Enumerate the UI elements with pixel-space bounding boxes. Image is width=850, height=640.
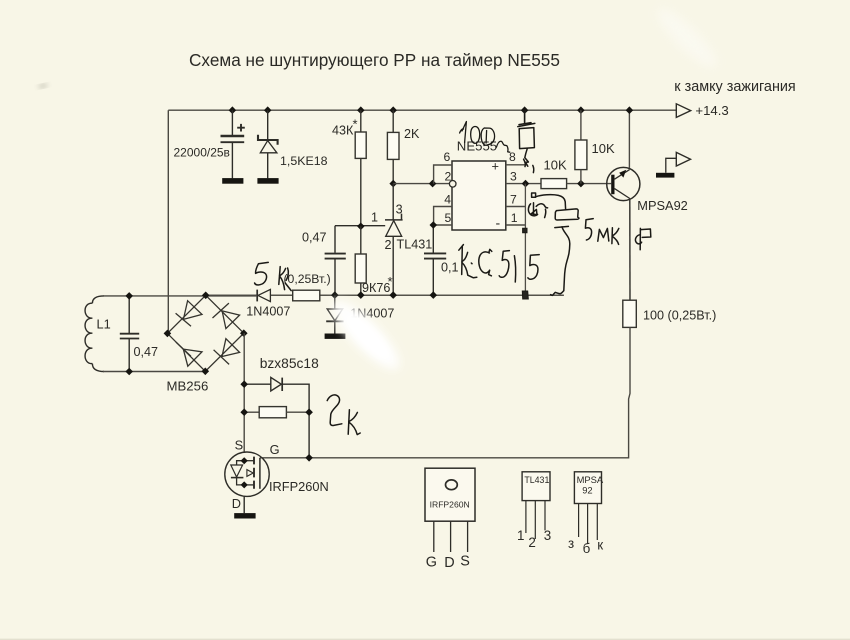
node bridge bottom bbox=[202, 368, 210, 376]
wire 10K to base bbox=[567, 183, 612, 185]
pin 8 stub bbox=[506, 164, 527, 166]
hand symbol right of collector bbox=[639, 228, 641, 249]
resistor 100 (0,25Вт.) bbox=[623, 300, 637, 327]
node resistor left bbox=[240, 408, 248, 416]
svg-text:22000/25в: 22000/25в bbox=[174, 146, 230, 160]
svg-text:9К76: 9К76 bbox=[362, 281, 390, 295]
svg-text:L1: L1 bbox=[97, 317, 111, 332]
pin 4 stub bbox=[434, 207, 452, 226]
node bridge left bbox=[164, 330, 172, 338]
diode bridge top-left bbox=[183, 301, 202, 320]
diode bridge bottom-left bbox=[183, 349, 202, 366]
node top rail at 2K bbox=[389, 106, 397, 114]
svg-text:б: б bbox=[583, 541, 591, 556]
svg-text:+14.3: +14.3 bbox=[695, 103, 728, 118]
svg-text:S: S bbox=[235, 438, 244, 453]
node top rail at pin8 branch bbox=[521, 106, 529, 114]
svg-text:1,5KE18: 1,5KE18 bbox=[280, 154, 328, 168]
ground of zener bbox=[257, 178, 278, 184]
zener bzx85c18 bbox=[244, 377, 309, 457]
ground bar (terminal) bbox=[656, 173, 674, 178]
svg-text:D: D bbox=[232, 496, 241, 511]
zener 1,5KE18 bbox=[258, 110, 278, 178]
wire 2K to pin 2 bbox=[393, 183, 449, 185]
node top rail at 43K bbox=[357, 106, 365, 114]
wire emitter rail drop bbox=[628, 110, 630, 168]
svg-text:0,47: 0,47 bbox=[134, 345, 159, 359]
node bridge right bbox=[240, 329, 248, 337]
hand loop wire bbox=[555, 226, 569, 227]
resistor 2K bbox=[387, 110, 399, 183]
svg-text:2: 2 bbox=[385, 238, 392, 252]
svg-text:к: к bbox=[597, 537, 603, 552]
node rail at 0,47 bbox=[331, 291, 339, 299]
diode bridge top-right bbox=[222, 311, 240, 329]
resistor 9К76 bbox=[355, 226, 366, 295]
svg-text:TL431: TL431 bbox=[524, 475, 549, 485]
hand wire pin7 area to 5mk cap bbox=[535, 195, 565, 209]
resistor (gate loop) bbox=[244, 407, 309, 418]
pin 3 wire to 10K bbox=[506, 183, 541, 185]
node base/10K vertical bbox=[577, 180, 585, 188]
svg-text:92: 92 bbox=[582, 485, 592, 496]
svg-text:4: 4 bbox=[444, 193, 451, 207]
svg-text:3: 3 bbox=[396, 203, 403, 217]
handwritten 10n above NE555 bbox=[462, 122, 466, 143]
svg-text:10K: 10K bbox=[544, 158, 567, 173]
node mosfet S bbox=[241, 457, 248, 464]
wire pin3 column down to ground rail bbox=[524, 184, 526, 295]
terminal arrow with ground bbox=[666, 158, 677, 173]
svg-text:NE555: NE555 bbox=[457, 139, 497, 154]
svg-text:*: * bbox=[353, 117, 358, 132]
wire pin8 riser stub bbox=[524, 110, 526, 122]
node pin 5 bbox=[430, 221, 438, 229]
pin 1 stub bbox=[506, 224, 526, 226]
glare streak (scan) bbox=[324, 2, 723, 378]
handwritten 5к near D1 bbox=[255, 262, 269, 285]
diode D2 1N4007 vertical bbox=[326, 295, 343, 333]
svg-text:2: 2 bbox=[445, 170, 452, 184]
resistor 10K vertical bbox=[575, 110, 587, 183]
svg-text:10K: 10K bbox=[592, 141, 615, 156]
svg-text:к замку зажигания: к замку зажигания bbox=[674, 79, 795, 95]
ground of mosfet drain bbox=[234, 513, 255, 518]
svg-text:з: з bbox=[568, 536, 574, 551]
package drawing MPSA92 bbox=[574, 472, 601, 544]
node top rail at emitter bbox=[626, 106, 634, 114]
node pin2 bracket bbox=[429, 180, 437, 188]
svg-text:5: 5 bbox=[445, 211, 452, 225]
svg-text:7: 7 bbox=[510, 193, 517, 207]
node rail at 0,1 bbox=[430, 291, 438, 299]
hand square at pin 7 bbox=[532, 193, 536, 197]
diode bridge bottom-right bbox=[222, 339, 240, 357]
svg-text:(0,25Вт.): (0,25Вт.) bbox=[284, 272, 331, 286]
capacitor 0,47 (L1) bbox=[120, 296, 139, 372]
wire ground rail bbox=[206, 294, 564, 296]
capacitor 0,47 (at TL431) bbox=[325, 226, 346, 295]
svg-text:-: - bbox=[496, 215, 501, 231]
svg-text:G: G bbox=[270, 442, 280, 457]
svg-text:IRFP260N: IRFP260N bbox=[269, 479, 329, 494]
resistor 0,25Вт bbox=[293, 290, 320, 301]
handwritten 5МК bbox=[585, 219, 593, 240]
node L1 cap bottom bbox=[125, 368, 133, 376]
node rail at TL431 bbox=[389, 291, 397, 299]
svg-text:2: 2 bbox=[528, 535, 535, 550]
scan speck left edge bbox=[39, 84, 47, 88]
svg-text:100 (0,25Вт.): 100 (0,25Вт.) bbox=[643, 308, 716, 322]
node bzx left bbox=[240, 380, 248, 388]
transistor Q2 IRFP260N (mosfet) bbox=[225, 452, 269, 513]
node gate line bbox=[305, 454, 313, 462]
svg-text:MPSA: MPSA bbox=[577, 474, 604, 485]
package drawing IRFP260N bbox=[425, 468, 475, 552]
pin 5 stub bbox=[433, 224, 452, 226]
pin 6 stub bbox=[434, 165, 452, 184]
node L1 cap top bbox=[125, 292, 133, 300]
node mosfet D bbox=[241, 481, 248, 488]
node bridge top bbox=[202, 292, 210, 300]
pin 2 circle bbox=[449, 181, 456, 188]
svg-text:3: 3 bbox=[544, 528, 551, 543]
svg-text:MB256: MB256 bbox=[167, 379, 209, 394]
svg-text:D: D bbox=[444, 555, 454, 571]
svg-text:1: 1 bbox=[511, 211, 518, 225]
node square ground rail (pen) bbox=[522, 291, 528, 299]
svg-text:1: 1 bbox=[371, 211, 378, 225]
TL431 U2 bbox=[335, 184, 403, 296]
resistor 43K bbox=[355, 110, 366, 226]
wire top supply rail bbox=[168, 109, 676, 111]
svg-text:1N4007: 1N4007 bbox=[246, 304, 290, 318]
transistor Q1 MPSA92 bbox=[607, 167, 640, 300]
svg-text:MPSA92: MPSA92 bbox=[637, 198, 688, 213]
node ref wire / 43K bbox=[357, 223, 365, 231]
terminal arrow +14.3 bbox=[676, 104, 690, 118]
hand transistor at pin 7 bbox=[533, 203, 535, 215]
svg-text:TL431: TL431 bbox=[397, 237, 433, 251]
svg-text:IRFP260N: IRFP260N bbox=[430, 499, 470, 509]
handwritten 2К near gate resistor bbox=[327, 395, 342, 426]
node top rail at 10K bbox=[577, 106, 585, 114]
node top rail at C1 bbox=[229, 106, 237, 114]
pen arrowhead at pin 8 bbox=[525, 149, 529, 166]
svg-text:G: G bbox=[426, 554, 437, 570]
hand capacitor 5МК (rounded box) bbox=[555, 209, 579, 220]
inductor L1 bbox=[85, 296, 104, 372]
svg-text:0,47: 0,47 bbox=[302, 231, 327, 245]
wire left vertical to bridge bbox=[167, 110, 169, 333]
bridge rectifier MB256 bbox=[167, 295, 243, 371]
svg-text:+: + bbox=[492, 159, 499, 174]
capacitor C1 22000/25в bbox=[221, 110, 245, 178]
wire L1 bottom bbox=[103, 371, 205, 373]
svg-text:2K: 2K bbox=[404, 127, 420, 141]
svg-text:Схема не шунтирующего РР на та: Схема не шунтирующего РР на таймер NE555 bbox=[189, 50, 560, 70]
svg-text:*: * bbox=[388, 274, 393, 289]
SEC3 bbox=[255, 111, 651, 435]
svg-text:bzx85c18: bzx85c18 bbox=[260, 356, 319, 371]
wire L1 top bbox=[103, 295, 257, 297]
wire bridge right to mosfet S bbox=[243, 333, 245, 452]
package drawing TL431 bbox=[522, 472, 550, 539]
svg-text:3: 3 bbox=[510, 170, 517, 184]
hand capacitor box near pin 8 bbox=[519, 128, 534, 149]
diode D1 1N4007 bbox=[257, 289, 270, 301]
svg-text:6: 6 bbox=[444, 150, 451, 164]
node resistor right bbox=[305, 408, 313, 416]
scan bottom edge bbox=[0, 639, 850, 640]
node pin 3 bbox=[522, 180, 530, 188]
svg-text:1: 1 bbox=[517, 528, 524, 543]
op-amp timer U1 NE555 bbox=[452, 161, 506, 230]
svg-text:S: S bbox=[460, 553, 470, 569]
node square pin1/rail (pen) bbox=[523, 228, 527, 232]
ground of C1 bbox=[222, 178, 243, 184]
wire collector down and across to gate bbox=[260, 327, 630, 457]
ground of D2 bbox=[325, 334, 346, 339]
pin 7 stub bbox=[506, 206, 525, 208]
handwritten КС 515 bbox=[461, 247, 464, 275]
node top rail at zener bbox=[264, 106, 272, 114]
node rail at 9К76 bbox=[357, 291, 365, 299]
svg-text:0,1: 0,1 bbox=[441, 261, 459, 275]
node 2K / pin2 bbox=[389, 180, 397, 188]
svg-text:43К: 43К bbox=[332, 124, 354, 138]
capacitor 0,1 bbox=[424, 225, 446, 295]
resistor 10K horizontal bbox=[541, 179, 567, 189]
